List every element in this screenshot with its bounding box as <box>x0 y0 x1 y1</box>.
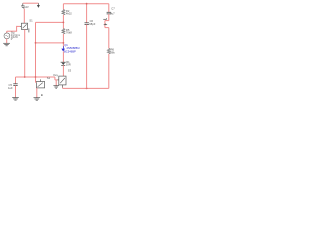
S1 side pin stub <box>27 28 30 32</box>
S3 bottom pin <box>62 85 64 88</box>
node base feed right <box>63 42 65 44</box>
switch S1 box <box>21 23 27 29</box>
wire source to ground <box>6 39 8 44</box>
ground under source <box>3 43 10 46</box>
capacitor C6 <box>85 23 89 25</box>
switch S2 box <box>36 82 44 88</box>
resistor R6 <box>107 48 110 53</box>
AC source label block <box>11 32 21 42</box>
wire into S3 <box>55 77 58 86</box>
svg-text:0°: 0° <box>11 38 13 41</box>
node divider mid <box>63 22 65 24</box>
wire battery top rail <box>23 2 39 4</box>
wire R6 down <box>108 54 110 89</box>
svg-text:BC546BP: BC546BP <box>64 49 76 53</box>
wire S1 bottom long vertical <box>24 29 26 77</box>
node top rail <box>86 3 88 5</box>
electrolytic marks <box>103 18 107 25</box>
wire staircase source to S1 <box>7 26 20 33</box>
svg-text:12V: 12V <box>24 6 29 9</box>
svg-text:76k8: 76k8 <box>66 31 72 35</box>
ground at S3 input <box>53 86 59 89</box>
transistor Q1 (blue virtual) <box>62 46 64 48</box>
svg-text:S3: S3 <box>68 68 72 72</box>
svg-text:S2: S2 <box>47 76 51 80</box>
zener D2 <box>61 61 66 63</box>
svg-text:68pF: 68pF <box>89 22 95 26</box>
node lower horizontal S1 branch <box>24 76 26 78</box>
ground arrow at top <box>37 3 39 5</box>
svg-text:96k: 96k <box>110 50 115 54</box>
node base feed left <box>35 42 37 44</box>
bottom rail <box>63 87 109 89</box>
resistor R2 <box>62 10 65 15</box>
S2 top pin <box>39 79 41 81</box>
wire down to C5 <box>15 77 17 84</box>
svg-text:10R: 10R <box>66 63 71 67</box>
wire lower horizontal <box>16 76 55 78</box>
svg-text:S1: S1 <box>29 18 33 22</box>
main rail top segment <box>62 4 64 10</box>
top rail <box>63 3 108 5</box>
svg-text:4k02: 4k02 <box>66 12 72 16</box>
svg-text:1uF: 1uF <box>8 86 13 90</box>
wire divider mid to left <box>36 21 64 23</box>
small mark near S2 ground <box>41 94 43 96</box>
right rail 1 <box>86 4 88 23</box>
switch S3 box <box>59 76 66 85</box>
capacitor C5 <box>13 84 17 86</box>
S1 left pin <box>20 25 21 27</box>
wire D2 to S3 <box>62 65 64 76</box>
wire Q1 down <box>62 52 64 63</box>
svg-text:C7: C7 <box>111 7 115 11</box>
wire C6 down <box>86 24 88 88</box>
S2 left pin wire <box>35 81 38 83</box>
wire jog electrolytic <box>105 21 109 49</box>
capacitor C7 <box>107 12 111 14</box>
battery V1 <box>21 3 25 9</box>
right rail 2 top <box>108 4 110 12</box>
wire R5 down <box>62 34 64 47</box>
AC source V2 <box>4 33 10 39</box>
wire base feed horizontal <box>36 42 64 44</box>
svg-text:4u7: 4u7 <box>110 11 115 15</box>
resistor R5 <box>62 29 65 34</box>
wire center vertical <box>35 22 37 82</box>
node lower horizontal center branch <box>35 76 37 78</box>
wire battery to S1 <box>23 9 25 23</box>
wire C7 down <box>108 14 110 21</box>
S3 left pin <box>58 79 59 81</box>
wire S2 to ground <box>36 88 38 98</box>
wire R2 to junction <box>62 15 64 29</box>
ground under S2 <box>34 98 41 101</box>
node bottom rail <box>86 88 88 90</box>
wire C5 to ground <box>15 86 17 98</box>
wire S3 to bottom rail <box>62 87 64 90</box>
ground under C5 <box>12 98 19 101</box>
